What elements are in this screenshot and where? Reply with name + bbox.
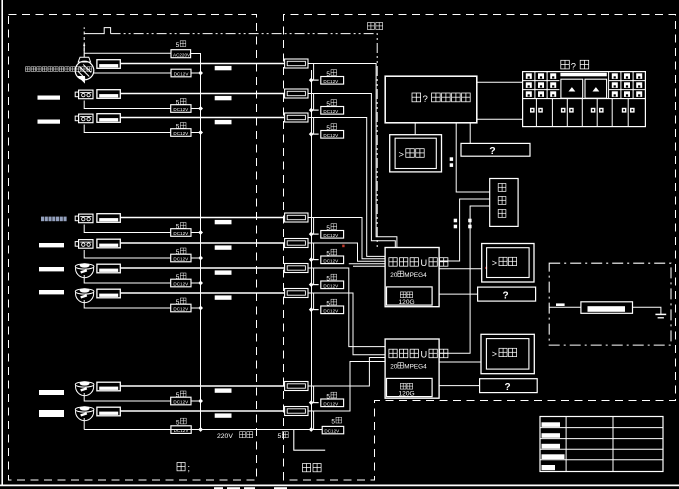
svg-text:DC12V: DC12V [323, 283, 339, 288]
svg-text:220V: 220V [217, 433, 233, 440]
monitor M3 [481, 334, 534, 373]
junction riser bus CAM4 [309, 232, 314, 237]
wire: CAM8 video line [120, 385, 284, 387]
cable label bar (CAM2) [215, 96, 232, 100]
drawing frame bottom edge [0, 484, 679, 486]
svg-text:;: ; [188, 463, 191, 473]
junction on left bus (CAM1) [198, 71, 203, 76]
wire: CAM3 video line [120, 117, 284, 119]
wire: DVR1 to keyboard K2 [439, 293, 478, 295]
cable label bar (CAM9) [215, 413, 232, 417]
svg-text:MPEG4: MPEG4 [404, 272, 427, 279]
ground symbol [655, 313, 666, 315]
wire: bottom 220V AC feed [84, 429, 322, 431]
camera CAM5 [79, 240, 93, 249]
svg-text:DC12V: DC12V [323, 401, 339, 406]
svg-text:?: ? [571, 60, 576, 71]
cropped text fragments below frame [214, 487, 223, 489]
label: control [368, 23, 375, 30]
cable label bar (CAM8) [215, 388, 232, 392]
power supply DC12V (CAM8) [171, 397, 191, 405]
label: HDD 120G DVR2 [400, 383, 406, 389]
svg-text:5: 5 [176, 224, 180, 231]
terminal box (riser) CAM1 [285, 59, 308, 68]
monitor M2 [482, 244, 534, 283]
junction riser bus CAM2 [309, 108, 314, 113]
wire: CAM7 power branch [84, 300, 171, 308]
svg-text:DC12V: DC12V [324, 429, 340, 434]
svg-text:U: U [421, 350, 428, 360]
wire: left 220V power bus [191, 54, 201, 430]
label bar: CAM2 name [38, 96, 61, 100]
power supply DC12V (riser CAM9) [322, 426, 344, 433]
wire: CAM6 video to recorder [308, 268, 385, 347]
svg-text:>: > [492, 349, 497, 359]
svg-text:DC12V: DC12V [323, 308, 339, 313]
power supply DC12V (CAM6) [171, 279, 191, 287]
surge protection device (fuse) [581, 302, 633, 314]
wire: CAM1 video to recorder [308, 64, 397, 248]
svg-text:AC220V: AC220V [173, 52, 191, 57]
wire: surge input [549, 306, 581, 308]
power supply DC12V (CAM3) [171, 129, 191, 137]
power supply DC12V (riser CAM3) [321, 131, 344, 139]
wire: host to TV wall (video) [477, 81, 523, 83]
wire: host to TV wall (lower) [477, 118, 523, 120]
camera CAM8 [75, 382, 94, 387]
junction riser bus CAM1 [309, 78, 314, 83]
hard disk box DVR1 [387, 287, 433, 305]
wire: CAM7 video line [120, 292, 284, 294]
svg-text:5: 5 [176, 274, 180, 281]
red revision dot [342, 245, 344, 248]
svg-text:DC12V: DC12V [173, 107, 189, 112]
wire: CAM6 power branch [84, 275, 171, 283]
terminal box (riser) CAM5 [285, 239, 308, 248]
junction riser bus CAM7 [309, 307, 314, 312]
field area dashed boundary (camera zone) [9, 15, 257, 481]
title block text bars [542, 422, 561, 427]
camera CAM1 [75, 61, 94, 80]
matrix control host U1 [385, 76, 477, 123]
TV wall small monitor cells (right bank) [608, 72, 610, 99]
wire: CAM9 video line [120, 410, 284, 412]
junction on left bus (CAM8) [198, 399, 203, 404]
svg-text:DC12V: DC12V [173, 231, 189, 236]
ethernet switch U2 [490, 179, 518, 227]
svg-text:DC12V: DC12V [173, 257, 189, 262]
label bar: CAM7 name [39, 290, 64, 294]
title block table [540, 417, 663, 472]
hard disk recorder DVR1 [385, 248, 439, 307]
power supply DC12V (riser CAM6) [321, 281, 344, 289]
wire: riser power branch CAM7 [314, 293, 319, 310]
cable label bar (CAM6) [215, 270, 232, 274]
junction on left bus (CAM6) [198, 281, 203, 286]
wire: CAM3 video to recorder [308, 118, 385, 257]
terminal box (riser) CAM6 [285, 264, 308, 273]
wire: middle power bus [311, 70, 313, 430]
wire: riser power branch CAM4 [314, 218, 319, 235]
power supply DC12V (riser CAM8) [321, 399, 344, 407]
wire: CAM5 video to recorder [308, 243, 385, 261]
svg-text:MPEG4: MPEG4 [404, 363, 427, 370]
wire: PTZ control line (dash-dot) [83, 27, 85, 51]
junction riser bus CAM9 [309, 427, 314, 432]
wire: riser power branch CAM3 [314, 118, 319, 135]
label: industrial HDD recorder DVR1 [389, 258, 397, 267]
label: matrix room [561, 60, 570, 69]
power supply DC12V (CAM1) [171, 69, 191, 77]
tiny cable tag pair A [450, 157, 453, 161]
cable label bar (CAM3) [215, 120, 232, 124]
hard disk box DVR2 [387, 378, 433, 396]
wire: CAM7 video to recorder [308, 293, 385, 355]
cable label bar (CAM4) [215, 220, 232, 224]
power supply DC12V (riser CAM5) [321, 256, 344, 264]
label: industrial HDD recorder DVR2 [389, 349, 397, 358]
label: control room name (bottom middle) [303, 464, 311, 472]
wire: CAM5 video line [120, 242, 284, 244]
camera CAM6 [75, 264, 94, 269]
camera housing/lens CAM7 [97, 289, 120, 298]
svg-text:?: ? [423, 94, 428, 105]
camera CAM3 [79, 114, 93, 123]
power supply DC12V (CAM4) [171, 229, 191, 237]
wire: DVR2 to keyboard K3 [439, 385, 480, 387]
svg-text:?: ? [489, 145, 495, 157]
keyboard K3 box [480, 379, 538, 393]
camera housing/lens CAM8 [97, 382, 120, 391]
hard disk recorder DVR2 [385, 339, 439, 398]
camera housing/lens CAM5 [97, 239, 120, 248]
terminal box (riser) CAM9 [285, 407, 308, 416]
wire: CAM4 power branch [84, 225, 171, 233]
junction on left bus (CAM7) [198, 306, 203, 311]
wire: riser power branch CAM8 [314, 386, 319, 403]
svg-text:120G: 120G [399, 299, 415, 306]
wire: feed tap into DVR1 (from CAM6 riser) [349, 263, 385, 265]
drawing frame left edge [1, 0, 3, 485]
wire: host to switch [456, 123, 490, 192]
label: field zone name (bottom left) [177, 463, 185, 471]
label bar: CAM6 name [39, 267, 64, 271]
svg-text:5: 5 [278, 433, 282, 440]
svg-text:5: 5 [331, 418, 335, 425]
junction on left bus (CAM2) [198, 106, 203, 111]
keyboard K2 box [478, 287, 536, 301]
terminal box (riser) CAM8 [285, 382, 308, 391]
wire: CAM4 video to recorder [308, 218, 385, 259]
red mark at monitor M2 wire [485, 267, 487, 269]
junction on left bus (CAM9) [198, 427, 203, 432]
svg-text:?: ? [504, 382, 510, 393]
power supply DC12V (CAM9) [171, 426, 191, 434]
wire: CAM4 video line [120, 217, 284, 219]
TV wall large monitors (middle) [560, 73, 606, 77]
label bar: CAM5 name [39, 243, 64, 247]
terminal box (riser) CAM2 [285, 89, 308, 98]
svg-text:U: U [421, 258, 428, 268]
wire: CAM3 power branch [84, 125, 171, 133]
camera housing/lens CAM4 [97, 214, 120, 223]
power supply AC220V (CAM1) [171, 50, 191, 58]
terminal box (riser) CAM4 [285, 213, 308, 222]
TV wall cabinet frame [523, 72, 646, 127]
power supply DC12V (CAM5) [171, 254, 191, 262]
wire: CAM5 power branch [84, 250, 171, 258]
TV wall bottom row cells [535, 99, 537, 127]
cable label bar (CAM1) [215, 66, 232, 70]
wire: power feed stub down [294, 430, 325, 451]
junction riser bus CAM8 [309, 400, 314, 405]
svg-text:>: > [399, 149, 405, 160]
label: HDD 120G DVR1 [400, 292, 406, 298]
wire: riser power branch CAM5 [314, 243, 319, 260]
junction riser bus CAM3 [309, 132, 314, 137]
camera housing/lens CAM2 [97, 90, 120, 99]
wire: CAM2 video to recorder [308, 94, 395, 248]
wire: CAM8 video to recorder [308, 358, 385, 387]
svg-text:DC12V: DC12V [174, 72, 190, 77]
svg-text:DC12V: DC12V [173, 307, 189, 312]
label: matrix control host [412, 93, 421, 102]
wire: CAM8 power branch [84, 393, 171, 401]
wire: DVR2 to monitor M3 [439, 361, 481, 363]
junction on left bus (CAM3) [198, 130, 203, 135]
wire: host to monitor M1 [414, 123, 416, 135]
camera housing/lens CAM1 [97, 60, 120, 69]
keyboard K1 box [461, 143, 530, 156]
cable label bar (CAM7) [215, 295, 232, 299]
wire: riser power branch CAM9 [313, 411, 315, 430]
wire: switch to DVR2 (net) [439, 206, 490, 353]
camera CAM7 [75, 289, 94, 294]
tick mark on surge input [556, 303, 565, 306]
label bar: CAM9 name [39, 410, 64, 417]
tiny cable tag pair C [468, 219, 471, 223]
svg-text:120G: 120G [399, 391, 415, 398]
wire: surge output to ground [633, 307, 661, 314]
monitor M1 [390, 135, 442, 172]
svg-text:DC12V: DC12V [173, 131, 189, 136]
svg-text:>: > [492, 258, 497, 268]
svg-text:5: 5 [176, 392, 180, 399]
tiny cable tag pair B [454, 219, 457, 223]
svg-text:DC12V: DC12V [173, 282, 189, 287]
svg-text:?: ? [502, 291, 508, 302]
camera housing/lens CAM9 [97, 407, 120, 416]
power supply DC12V (CAM7) [171, 304, 191, 312]
label: CAM4 underground garage camera (colored) [41, 217, 44, 222]
terminal box (riser) CAM7 [285, 289, 308, 298]
svg-text:5: 5 [176, 100, 180, 107]
label: CAM1 full-color integrated smart ball camera [26, 67, 31, 72]
power supply DC12V (riser CAM2) [321, 107, 344, 115]
wire: CAM2 video line [120, 93, 284, 95]
junction on left bus (CAM5) [198, 256, 203, 261]
junction riser bus CAM5 [309, 257, 314, 262]
svg-text:DC12V: DC12V [323, 109, 339, 114]
wire: riser power branch CAM1 [314, 64, 319, 81]
junction on left bus (CAM4) [198, 230, 203, 235]
power supply DC12V (CAM2) [171, 105, 191, 113]
camera housing/lens CAM3 [97, 114, 120, 123]
label bar: CAM8 name [39, 390, 64, 395]
svg-text:DC12V: DC12V [323, 233, 339, 238]
control room dashed boundary [284, 15, 676, 481]
svg-text:20: 20 [390, 272, 398, 279]
wire: DVR1 to monitor M2 [439, 268, 482, 270]
cable label bar (CAM5) [215, 245, 232, 249]
svg-text:DC12V: DC12V [174, 428, 190, 433]
svg-text:5: 5 [176, 299, 180, 306]
surge protector dashed enclosure [549, 263, 671, 345]
power supply DC12V (riser CAM1) [321, 77, 344, 85]
wire: CAM2 power branch [84, 101, 171, 109]
junction riser bus CAM6 [309, 282, 314, 287]
wire: CAM6 video line [120, 267, 284, 269]
wire: switch to DVR1 (net) [439, 199, 490, 261]
TV wall small monitor cells (left bank) [534, 72, 536, 99]
wire: CAM9 video to recorder [308, 362, 385, 412]
wire: host to keyboard K1 [469, 123, 471, 144]
svg-text:DC12V: DC12V [323, 133, 339, 138]
wire: CAM9 power branch to 220V feed [83, 418, 85, 430]
svg-text:DC12V: DC12V [173, 400, 189, 405]
terminal box (riser) CAM3 [285, 113, 308, 122]
wire: CAM1 DC line [94, 72, 171, 74]
label bar: CAM3 name [38, 120, 61, 124]
wire: riser power branch CAM2 [314, 94, 319, 111]
svg-text:5: 5 [176, 249, 180, 256]
camera CAM2 [79, 90, 93, 99]
svg-text:DC12V: DC12V [323, 258, 339, 263]
svg-text:5: 5 [176, 42, 180, 49]
wire: riser power branch CAM6 [314, 268, 319, 285]
camera CAM9 [75, 407, 94, 412]
wire: CAM1 AC power line [84, 52, 171, 54]
camera CAM4 [79, 214, 93, 223]
label: switch (vertical) [498, 184, 506, 192]
wire: CAM1 video line [120, 63, 284, 65]
camera housing/lens CAM6 [97, 264, 120, 273]
svg-text:DC12V: DC12V [323, 79, 339, 84]
wire: feed tap into DVR1 (from CAM7 riser) [353, 265, 385, 267]
power supply DC12V (riser CAM7) [321, 306, 344, 314]
svg-text:20: 20 [390, 363, 398, 370]
svg-text:5: 5 [176, 124, 180, 131]
power supply DC12V (riser CAM4) [321, 231, 344, 239]
